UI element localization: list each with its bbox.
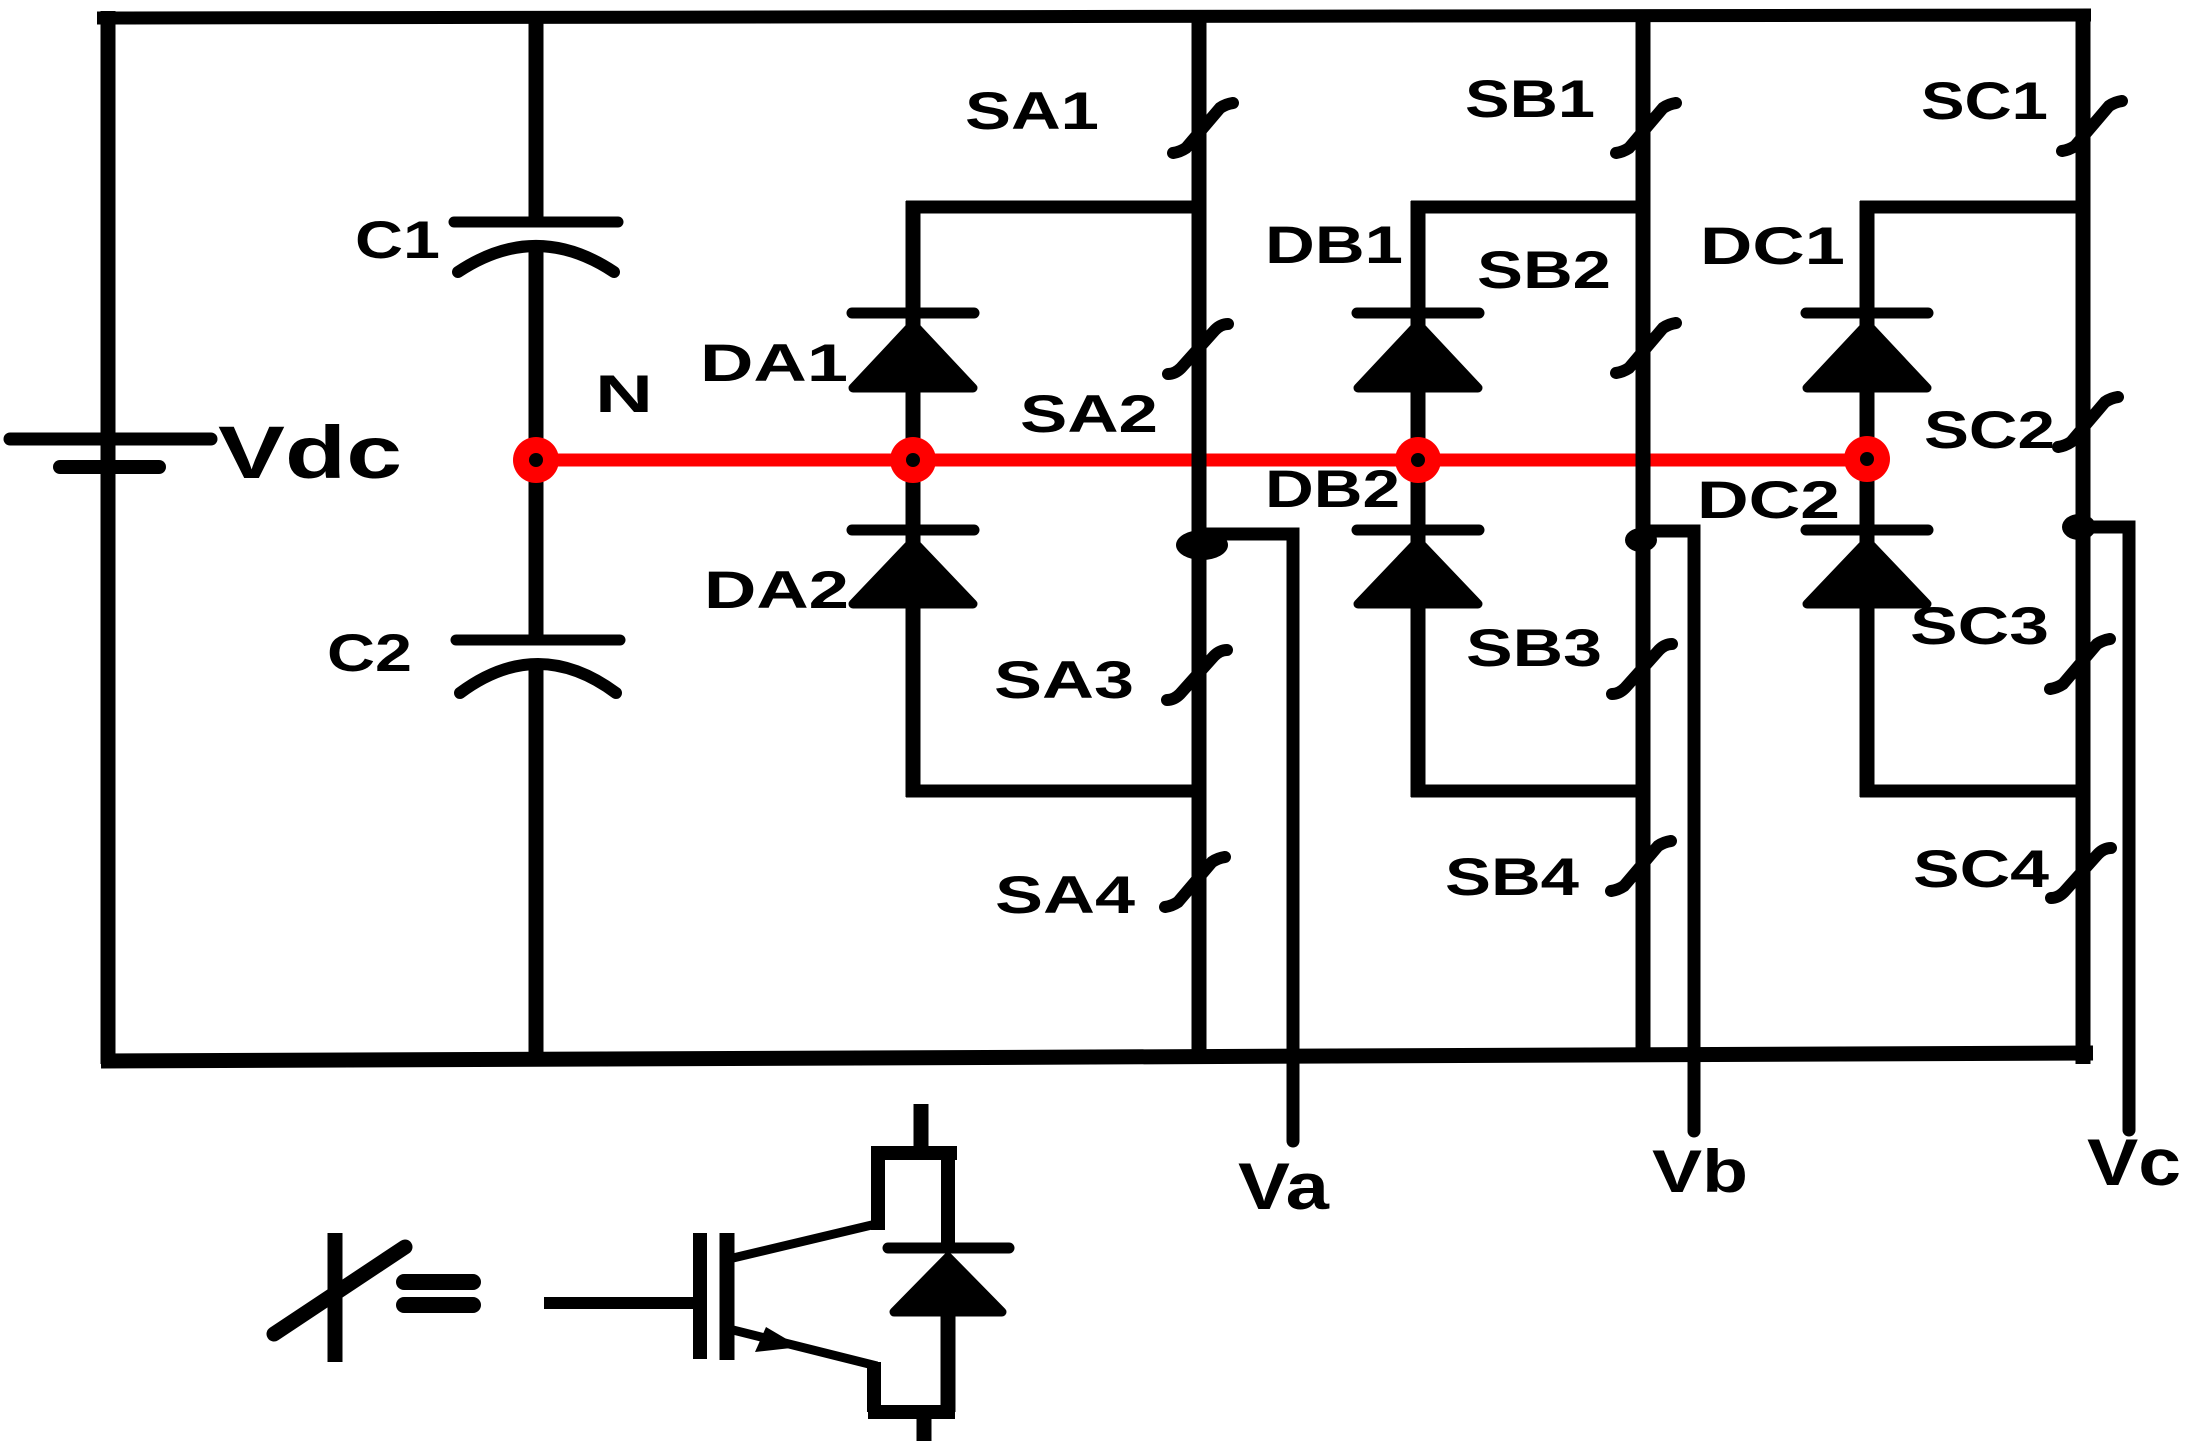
svg-text:SB2: SB2 <box>1477 241 1611 300</box>
svg-text:DA2: DA2 <box>704 561 849 620</box>
svg-text:SC4: SC4 <box>1913 840 2050 899</box>
svg-text:Vb: Vb <box>1652 1138 1748 1205</box>
svg-text:SA1: SA1 <box>965 82 1099 141</box>
svg-text:SA3: SA3 <box>994 651 1134 710</box>
svg-text:C1: C1 <box>355 211 440 270</box>
svg-text:SB1: SB1 <box>1465 70 1595 129</box>
svg-text:DB1: DB1 <box>1265 216 1403 275</box>
svg-text:SC3: SC3 <box>1910 597 2049 656</box>
svg-text:DC1: DC1 <box>1700 217 1845 276</box>
svg-text:DB2: DB2 <box>1265 460 1400 519</box>
svg-text:C2: C2 <box>327 624 412 683</box>
svg-text:SC2: SC2 <box>1924 401 2055 460</box>
svg-text:DC2: DC2 <box>1697 471 1840 530</box>
svg-text:SA4: SA4 <box>995 866 1136 925</box>
svg-text:Vdc: Vdc <box>218 411 402 494</box>
svg-text:Va: Va <box>1238 1149 1331 1223</box>
svg-text:SB3: SB3 <box>1466 619 1602 678</box>
svg-text:SB4: SB4 <box>1445 848 1580 907</box>
svg-text:DA1: DA1 <box>700 334 848 393</box>
svg-text:Vc: Vc <box>2087 1125 2181 1199</box>
svg-text:N: N <box>595 365 653 424</box>
svg-text:SA2: SA2 <box>1020 385 1158 444</box>
svg-text:SC1: SC1 <box>1921 72 2048 131</box>
